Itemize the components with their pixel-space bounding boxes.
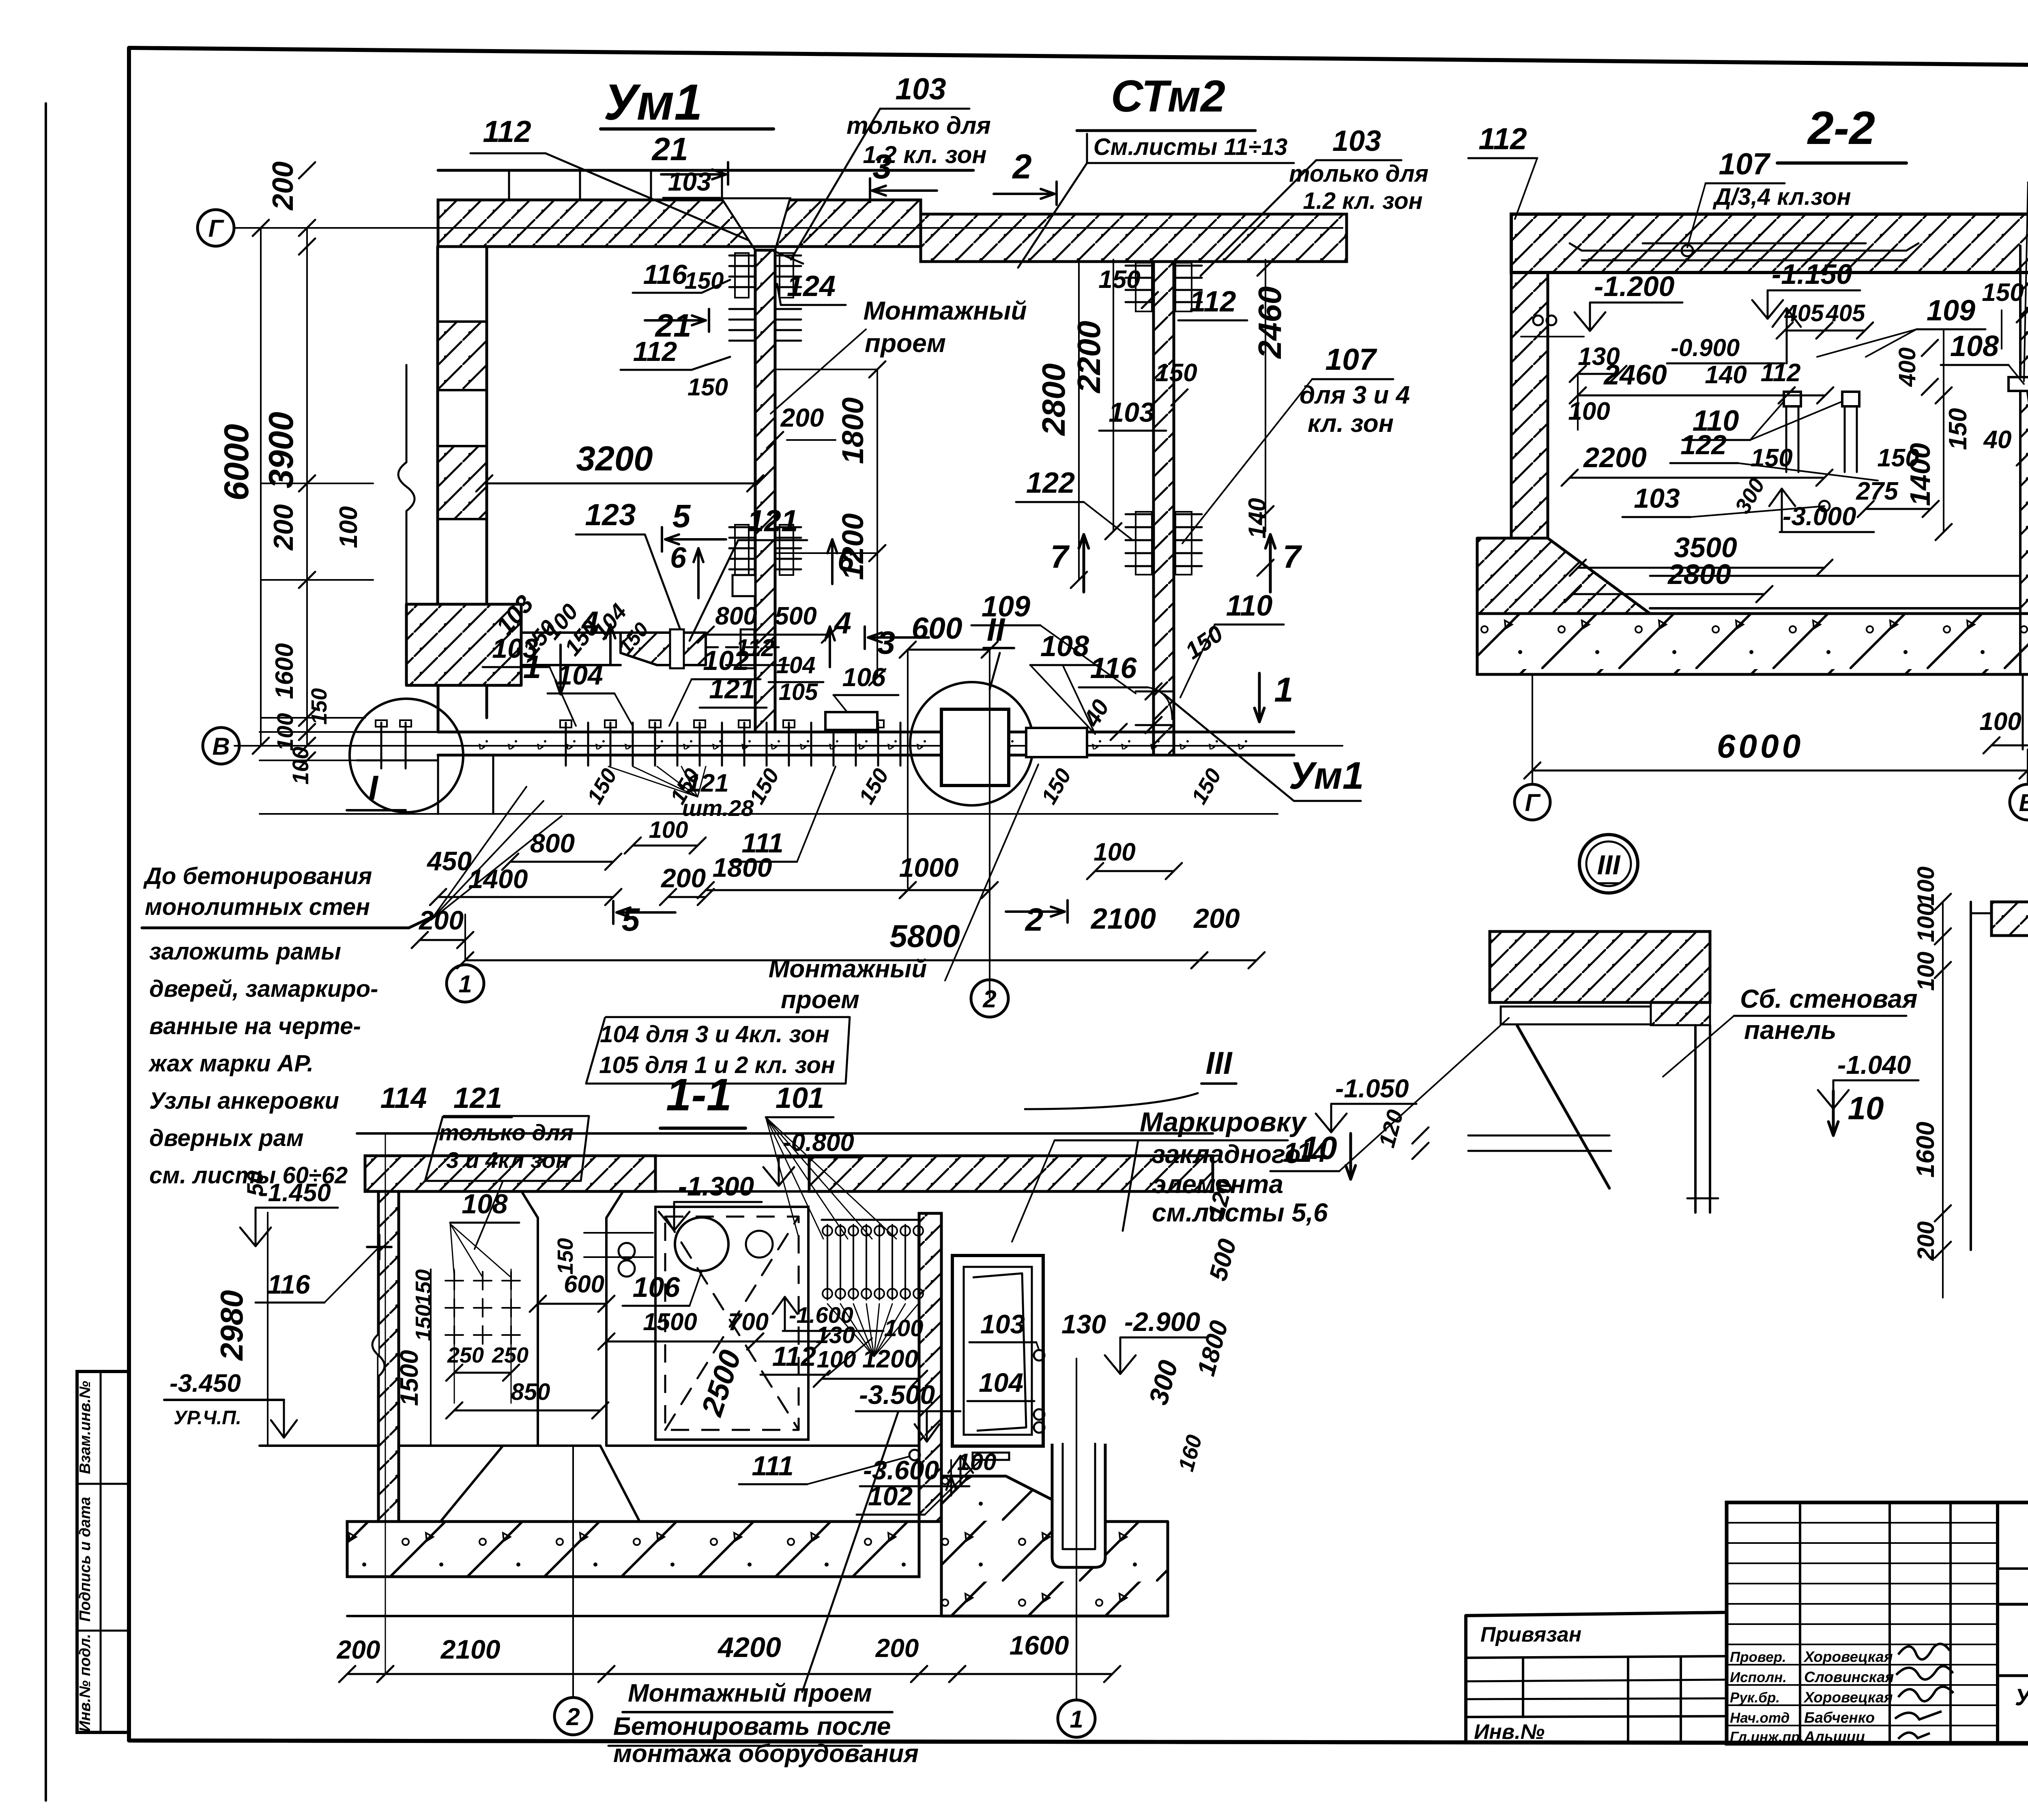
left sidebar stamp boxes: [77, 1371, 129, 1732]
svg-text:Исполн.: Исполн.: [1730, 1670, 1787, 1685]
10-10 left dim chain: [1942, 902, 1944, 1298]
svg-text:1600: 1600: [1010, 1630, 1069, 1660]
svg-text:2-2: 2-2: [1807, 102, 1875, 154]
bottom wall top face: [438, 731, 1294, 734]
anchor bolt row in bottom wall: [565, 723, 567, 766]
2-2 axis Г circle: [1515, 784, 1550, 820]
СТм2 anchor bolts middle: [1126, 513, 1152, 515]
plan top wall hatched band: [438, 200, 921, 247]
svg-text:111: 111: [741, 828, 783, 858]
svg-text:-3.500: -3.500: [859, 1380, 935, 1410]
svg-text:-1.040: -1.040: [1837, 1050, 1911, 1080]
axis Г circle: [198, 210, 234, 246]
svg-text:1: 1: [1070, 1706, 1083, 1733]
svg-text:121: 121: [747, 504, 798, 538]
svg-text:7: 7: [1283, 539, 1302, 575]
svg-text:200: 200: [337, 1635, 380, 1664]
1-1 anchor rack: [822, 1219, 919, 1221]
10-10 left boundary: [1970, 902, 1972, 1250]
СТм2 anchor bolts top: [1126, 265, 1152, 267]
svg-text:-2.900: -2.900: [1124, 1307, 1200, 1337]
detail circle I: [350, 699, 463, 812]
svg-text:5800: 5800: [889, 918, 960, 954]
svg-text:10: 10: [1848, 1090, 1884, 1126]
svg-text:250: 250: [447, 1343, 484, 1367]
svg-text:112: 112: [1478, 122, 1527, 156]
svg-text:монтажа оборудования: монтажа оборудования: [613, 1740, 919, 1768]
svg-text:1: 1: [458, 970, 472, 998]
svg-text:104: 104: [557, 660, 603, 691]
axis circle 1 under plan: [447, 965, 484, 1002]
svg-text:103: 103: [895, 72, 946, 106]
middle detail channel sole: [1687, 1198, 1718, 1200]
middle detail concrete band: [1490, 931, 1710, 1002]
1-1 right foundation with channel pit: [941, 1476, 1168, 1616]
svg-text:2: 2: [982, 985, 996, 1013]
white step notch at wall bottom: [733, 575, 755, 596]
svg-text:только для: только для: [846, 112, 991, 139]
svg-text:405: 405: [1784, 300, 1824, 326]
svg-text:III: III: [1205, 1045, 1232, 1081]
svg-text:250: 250: [492, 1343, 528, 1367]
svg-text:Г: Г: [208, 215, 225, 242]
svg-text:1600: 1600: [1912, 1122, 1940, 1178]
svg-text:200: 200: [267, 161, 299, 211]
1-1 left wall strip: [378, 1191, 399, 1522]
svg-text:116: 116: [643, 259, 688, 290]
svg-text:800: 800: [530, 828, 575, 858]
svg-text:1600: 1600: [271, 643, 299, 699]
2-2 foundation slab: [1477, 614, 2028, 674]
bottom wall bottom face: [438, 754, 1294, 757]
svg-text:105 для 1 и 2 кл. зон: 105 для 1 и 2 кл. зон: [599, 1052, 835, 1078]
svg-text:150: 150: [553, 1238, 578, 1275]
middle detail panel plate: [1490, 1001, 1710, 1004]
svg-text:СТм2: СТм2: [1111, 71, 1225, 121]
svg-text:104: 104: [776, 652, 816, 678]
plan top wall outer panel joints: [508, 170, 510, 200]
svg-text:109: 109: [1927, 294, 1975, 327]
svg-text:150: 150: [685, 268, 724, 294]
svg-text:2: 2: [1012, 148, 1031, 186]
1-1 foundation slab left: [347, 1522, 919, 1577]
svg-text:панель: панель: [1744, 1015, 1837, 1045]
svg-text:Ум1: Ум1: [604, 74, 702, 131]
svg-text:116: 116: [1090, 652, 1137, 685]
svg-text:1500: 1500: [395, 1350, 423, 1406]
svg-text:только для: только для: [1289, 161, 1429, 187]
1-1 top edge line: [357, 1132, 1213, 1135]
svg-text:Хоровецкая: Хоровецкая: [1803, 1689, 1893, 1706]
svg-text:проем: проем: [781, 986, 859, 1014]
svg-text:124: 124: [787, 270, 836, 303]
svg-text:100: 100: [335, 506, 363, 548]
svg-text:21: 21: [651, 131, 688, 167]
1-1 top slab hatched band: [365, 1156, 655, 1191]
1-1 axis leader lines down: [385, 1133, 386, 1674]
2-2 inner floor lines: [1650, 575, 2020, 577]
axis Г line: [234, 227, 1343, 229]
svg-text:400: 400: [1894, 348, 1921, 387]
inner partition walls near door (plan centre): [521, 631, 706, 634]
svg-text:5: 5: [672, 498, 691, 534]
svg-text:107: 107: [1325, 342, 1377, 376]
signature scribbles: [1898, 1644, 1950, 1659]
svg-text:2460: 2460: [1252, 286, 1288, 359]
2-2 embedded plate on right panel (108): [2009, 377, 2028, 391]
svg-text:103: 103: [980, 1309, 1025, 1339]
svg-text:Монтажный проем: Монтажный проем: [628, 1679, 872, 1707]
detail circle II with embedded square: [910, 682, 1033, 805]
svg-text:2200: 2200: [1583, 442, 1647, 473]
svg-text:140: 140: [1705, 361, 1747, 389]
title block fine rows (left section): [1727, 1522, 1998, 1524]
1-1 central column: [537, 1218, 539, 1446]
svg-text:для 3 и 4: для 3 и 4: [1300, 381, 1410, 409]
svg-text:100: 100: [957, 1449, 997, 1475]
svg-text:109: 109: [982, 590, 1030, 623]
left dim chain verticals: [260, 228, 262, 746]
svg-text:108: 108: [1950, 330, 1999, 363]
rect marks on bottom wall (items 104/106): [825, 712, 877, 730]
svg-text:112: 112: [1761, 359, 1801, 387]
svg-text:112: 112: [633, 336, 677, 367]
svg-text:заложить рамы: заложить рамы: [149, 938, 341, 965]
svg-text:Хоровецкая: Хоровецкая: [1803, 1648, 1893, 1665]
svg-text:102: 102: [868, 1481, 913, 1511]
svg-text:150: 150: [1982, 279, 2024, 307]
svg-text:1000: 1000: [899, 852, 959, 882]
svg-text:140: 140: [1244, 498, 1271, 539]
svg-text:100: 100: [817, 1346, 856, 1373]
10-10 top hatched band: [1991, 902, 2028, 936]
svg-text:103: 103: [1332, 125, 1381, 157]
svg-text:150: 150: [1155, 359, 1197, 387]
svg-text:111: 111: [752, 1451, 793, 1481]
svg-text:См.листы 11÷13: См.листы 11÷13: [1093, 134, 1287, 160]
svg-text:-0.800: -0.800: [783, 1129, 854, 1157]
svg-text:Бетонировать после: Бетонировать после: [613, 1713, 891, 1741]
svg-text:шт.28: шт.28: [682, 795, 754, 821]
svg-text:106: 106: [633, 1271, 681, 1303]
axis В circle: [203, 728, 239, 764]
left wall lower strip to bottom wall: [437, 685, 440, 732]
svg-text:101: 101: [776, 1082, 824, 1114]
wall lines through circle I: [357, 731, 438, 733]
1-1 axis circle 2: [554, 1698, 592, 1735]
svg-text:Нач.отд: Нач.отд: [1730, 1710, 1790, 1726]
svg-text:108: 108: [1040, 630, 1089, 663]
svg-text:6000: 6000: [217, 424, 256, 500]
svg-text:200: 200: [1913, 1221, 1939, 1261]
svg-text:Альшиц: Альшиц: [1804, 1728, 1865, 1745]
axis В line: [234, 745, 1343, 747]
svg-text:До бетонирования: До бетонирования: [143, 863, 372, 889]
left wall lower hatched block: [406, 604, 521, 685]
svg-text:150: 150: [1098, 266, 1140, 294]
svg-text:III: III: [1597, 850, 1621, 880]
lower beam edge line: [260, 813, 1278, 815]
svg-text:см. листы 60÷62: см. листы 60÷62: [149, 1162, 348, 1189]
1-1 montage opening dashed: [655, 1207, 808, 1440]
section III emblem (double circle): [1579, 835, 1638, 893]
svg-text:850: 850: [511, 1379, 550, 1405]
svg-text:2: 2: [566, 1703, 580, 1730]
svg-text:кл. зон: кл. зон: [1308, 410, 1394, 438]
svg-text:-1.300: -1.300: [678, 1171, 754, 1201]
svg-text:Провер.: Провер.: [1730, 1649, 1786, 1665]
svg-text:2800: 2800: [1667, 558, 1731, 590]
svg-text:-1.150: -1.150: [1772, 258, 1852, 290]
svg-text:700: 700: [728, 1308, 769, 1335]
svg-text:104 для 3 и 4кл. зон: 104 для 3 и 4кл. зон: [600, 1021, 829, 1047]
plan top wall outer line: [438, 169, 973, 172]
svg-text:Монтажный: Монтажный: [769, 955, 927, 983]
svg-text:112: 112: [736, 634, 775, 661]
svg-text:112: 112: [1190, 285, 1236, 318]
svg-text:150: 150: [1944, 408, 1972, 450]
2-2 small circles at left wall: [1533, 315, 1543, 325]
svg-text:Взам.инв.№: Взам.инв.№: [77, 1381, 94, 1474]
svg-text:121: 121: [709, 674, 755, 704]
title block outer box: [1727, 1502, 2028, 1744]
bottom wall hatched band: [462, 734, 1265, 753]
svg-text:3200: 3200: [576, 440, 653, 478]
svg-text:Ум1: Ум1: [1289, 754, 1364, 797]
2-2 stub columns: [1784, 392, 1801, 406]
middle detail funnel walls: [1517, 1025, 1609, 1188]
svg-text:3900: 3900: [262, 412, 301, 488]
svg-text:Д/3,4 кл.зон: Д/3,4 кл.зон: [1712, 184, 1851, 210]
svg-text:200: 200: [268, 504, 299, 551]
svg-text:жах марки АР.: жах марки АР.: [148, 1050, 314, 1077]
svg-text:150: 150: [411, 1305, 436, 1341]
svg-text:монолитных стен: монолитных стен: [145, 894, 370, 920]
svg-text:Рук.бр.: Рук.бр.: [1730, 1690, 1780, 1706]
svg-text:121: 121: [453, 1082, 502, 1114]
monolithic wall (vertical, centre of plan): [755, 250, 775, 732]
svg-text:1800: 1800: [836, 397, 870, 464]
2-2 right panel wall: [2019, 246, 2022, 674]
svg-text:2100: 2100: [440, 1634, 501, 1664]
svg-text:-3.450: -3.450: [170, 1369, 241, 1397]
svg-text:200: 200: [1193, 903, 1240, 934]
2-2 top slab hatched: [1511, 214, 2028, 273]
svg-text:200: 200: [780, 403, 824, 432]
svg-text:проем: проем: [865, 328, 946, 358]
axis circle 2 under plan: [971, 980, 1008, 1017]
svg-text:108: 108: [462, 1189, 508, 1219]
sheet edge line (left): [45, 103, 47, 1801]
svg-text:110: 110: [1226, 590, 1273, 622]
svg-text:10: 10: [1301, 1130, 1337, 1166]
svg-text:200: 200: [875, 1633, 919, 1663]
СТм2 wall (vertical hatched): [1154, 262, 1174, 755]
svg-text:Гл.инж.пр.: Гл.инж.пр.: [1730, 1729, 1804, 1745]
svg-text:2460: 2460: [1603, 359, 1667, 391]
svg-text:4: 4: [834, 606, 851, 640]
2-2 embedded plates in slab: [1582, 250, 1906, 252]
svg-text:6: 6: [670, 542, 687, 574]
svg-text:130: 130: [1061, 1309, 1106, 1339]
svg-text:1: 1: [1274, 671, 1293, 709]
svg-text:Привязан: Привязан: [1480, 1623, 1581, 1646]
svg-text:107: 107: [1719, 147, 1770, 181]
svg-text:Сб. стеновая: Сб. стеновая: [1740, 984, 1918, 1013]
montage opening wedge in top wall: [722, 198, 790, 250]
title block right section lines: [1998, 1567, 2028, 1570]
1-1 floor lines: [260, 1444, 378, 1447]
1-1 door frame: [952, 1256, 1043, 1446]
svg-text:103: 103: [1109, 397, 1155, 428]
svg-text:103: 103: [492, 633, 538, 664]
svg-text:Г: Г: [1525, 789, 1541, 816]
svg-text:100: 100: [1568, 397, 1610, 425]
svg-text:114: 114: [380, 1082, 427, 1114]
svg-text:122: 122: [1680, 429, 1727, 460]
svg-text:1500: 1500: [643, 1308, 697, 1335]
svg-text:130: 130: [816, 1322, 855, 1348]
svg-text:100: 100: [1913, 867, 1939, 906]
svg-text:150: 150: [307, 688, 331, 725]
svg-text:103: 103: [1634, 483, 1680, 514]
svg-text:150: 150: [411, 1269, 436, 1306]
СТм2 anchor bolts bottom: [1136, 691, 1172, 693]
svg-text:2: 2: [1025, 901, 1044, 938]
svg-text:600: 600: [911, 611, 962, 645]
svg-text:2980: 2980: [214, 1290, 249, 1361]
svg-text:-1.200: -1.200: [1594, 270, 1675, 302]
svg-text:112: 112: [483, 114, 531, 148]
svg-text:УР.Ч.П.: УР.Ч.П.: [174, 1407, 241, 1429]
wall break squiggle: [398, 462, 415, 511]
svg-text:275: 275: [1856, 477, 1899, 505]
left wall strip of plan: [436, 247, 439, 604]
1-1 equipment base trapezoid: [440, 1446, 640, 1522]
svg-text:100: 100: [649, 817, 688, 843]
svg-text:6: 6: [838, 545, 854, 577]
svg-text:1.2 кл. зон: 1.2 кл. зон: [1303, 188, 1422, 214]
2-2 left footing: [1477, 538, 1650, 614]
svg-text:40: 40: [1983, 426, 2012, 454]
svg-text:В: В: [2019, 789, 2028, 816]
title block vertical lines (signature columns): [1799, 1502, 1801, 1744]
2-2 left wall: [1511, 273, 1548, 538]
1-1 right wall: [919, 1213, 941, 1522]
long leader from note to opening: [802, 1411, 898, 1692]
title block extension (Привязан): [1466, 1612, 1727, 1616]
2-2 axis В circle: [2010, 784, 2028, 820]
svg-text:I: I: [368, 769, 379, 807]
svg-text:-3.000: -3.000: [1783, 502, 1856, 531]
svg-text:Инв.№ подл.: Инв.№ подл.: [77, 1634, 94, 1732]
svg-text:2800: 2800: [1035, 363, 1072, 436]
svg-text:800: 800: [715, 602, 757, 630]
svg-text:122: 122: [1026, 467, 1075, 499]
svg-text:-1.050: -1.050: [1335, 1074, 1409, 1103]
middle detail floor lines: [1468, 1135, 1609, 1137]
frame bottom line: [129, 1741, 2028, 1744]
svg-text:6000: 6000: [1717, 728, 1804, 765]
svg-text:2200: 2200: [1071, 321, 1107, 394]
svg-text:3: 3: [872, 148, 892, 186]
svg-text:150: 150: [687, 373, 728, 401]
svg-text:см.листы 5,6: см.листы 5,6: [1152, 1198, 1328, 1227]
svg-text:Бабченко: Бабченко: [1804, 1709, 1875, 1726]
svg-text:100: 100: [1979, 708, 2021, 736]
fan leaders to wall junction: [431, 787, 526, 920]
anchor bolt cluster on monolithic wall lower: [729, 526, 754, 528]
svg-text:Монтажный: Монтажный: [863, 296, 1027, 325]
vertical leader from II circle down: [989, 650, 990, 998]
svg-text:ванные на черте-: ванные на черте-: [149, 1013, 361, 1039]
svg-text:2100: 2100: [1090, 903, 1156, 935]
left wall hatched blocks: [438, 322, 487, 390]
svg-text:100: 100: [1093, 838, 1135, 866]
1-1 axis circle 1: [1058, 1700, 1095, 1737]
svg-text:150: 150: [1751, 444, 1792, 472]
svg-text:7: 7: [1051, 539, 1070, 575]
svg-text:1400: 1400: [468, 864, 528, 894]
svg-text:123: 123: [585, 498, 636, 532]
svg-text:4: 4: [581, 605, 599, 639]
svg-text:Узлы анкеровки: Узлы анкеровки: [149, 1088, 339, 1114]
svg-text:4200: 4200: [717, 1631, 781, 1663]
svg-text:Ум1. Разрезы 1-1,2-2,: Ум1. Разрезы 1-1,2-2,: [2015, 1684, 2028, 1711]
svg-text:Инв.№: Инв.№: [1474, 1720, 1545, 1744]
svg-text:Словинская: Словинская: [1804, 1669, 1894, 1685]
svg-text:500: 500: [775, 602, 816, 630]
svg-text:дверных рам: дверных рам: [149, 1125, 304, 1151]
svg-text:1400: 1400: [1904, 443, 1936, 506]
axis line continues (УМ1 pointer): [1164, 694, 1294, 801]
svg-text:дверей, замаркиро-: дверей, замаркиро-: [149, 976, 378, 1002]
svg-text:104: 104: [979, 1367, 1023, 1397]
svg-text:Подпись и дата: Подпись и дата: [77, 1497, 94, 1622]
svg-text:116: 116: [267, 1269, 311, 1299]
svg-text:112: 112: [772, 1341, 816, 1372]
svg-text:100: 100: [1913, 952, 1939, 991]
1-1 item 106 circles: [675, 1217, 728, 1271]
svg-text:В: В: [212, 733, 230, 760]
svg-text:-0.900: -0.900: [1671, 334, 1740, 361]
anchor bolt cluster on monolithic wall top: [729, 255, 754, 257]
plan top wall inner line: [438, 245, 921, 248]
svg-text:105: 105: [779, 679, 819, 705]
svg-text:106: 106: [842, 663, 886, 692]
svg-text:200: 200: [660, 863, 706, 893]
